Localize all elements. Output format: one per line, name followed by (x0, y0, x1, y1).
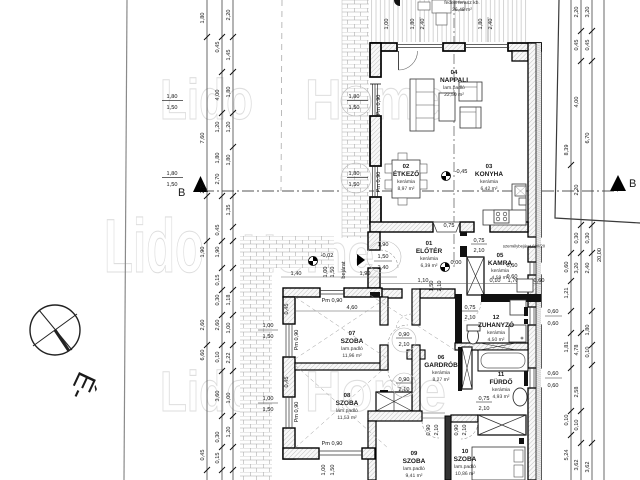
watermark row 1 (160, 68, 446, 132)
svg-text:0,90: 0,90 (426, 425, 432, 436)
east wall (528, 43, 541, 480)
door dim labels interior (392, 223, 492, 435)
svg-text:SZOBA: SZOBA (403, 458, 426, 465)
svg-text:0,45: 0,45 (574, 40, 580, 51)
svg-text:2,20: 2,20 (574, 7, 580, 18)
svg-text:0,15: 0,15 (215, 453, 221, 464)
svg-text:4,60: 4,60 (347, 305, 358, 311)
svg-text:Pm 0,90: Pm 0,90 (322, 298, 343, 304)
svg-text:03: 03 (486, 163, 493, 170)
right dimension chain line 4 (597, 0, 604, 480)
svg-text:2,70: 2,70 (200, 183, 206, 194)
svg-text:0,60: 0,60 (548, 383, 559, 389)
svg-text:0,10: 0,10 (574, 420, 580, 431)
svg-text:lam.padló: lam.padló (454, 464, 476, 470)
window labels west wall (258, 323, 300, 422)
svg-text:3,20: 3,20 (574, 263, 580, 274)
svg-text:1,50: 1,50 (330, 267, 336, 278)
section marker B right (610, 175, 636, 191)
svg-text:1,00: 1,00 (263, 396, 274, 402)
svg-text:Lido: Lido (160, 68, 253, 132)
south wall of corridor block (368, 411, 478, 480)
svg-text:lam.padló: lam.padló (403, 466, 425, 472)
elevation marker elotér (441, 260, 462, 272)
svg-text:5,24: 5,24 (564, 450, 570, 461)
left chain tick marks (204, 34, 236, 473)
room 12 ZUHANYZÓ label (478, 314, 514, 343)
svg-text:1,00: 1,00 (263, 323, 274, 329)
west wall lower section (283, 297, 295, 459)
window label chain side 1 (162, 94, 183, 111)
svg-text:0,45: 0,45 (585, 40, 591, 51)
svg-text:3,60: 3,60 (215, 391, 221, 402)
svg-text:0,45: 0,45 (284, 377, 290, 388)
window label west living 1 (341, 86, 382, 116)
dashed diagonals room 07 (295, 297, 388, 359)
svg-text:0,75: 0,75 (465, 305, 476, 311)
svg-text:0,45: 0,45 (200, 450, 206, 461)
svg-text:1,90: 1,90 (200, 247, 206, 258)
svg-text:1,10: 1,10 (418, 278, 429, 284)
svg-text:1,80: 1,80 (585, 325, 591, 336)
svg-text:Pm 0,90: Pm 0,90 (294, 330, 300, 351)
wall between zuhanyzó and fürdő (455, 343, 528, 350)
svg-text:2,58: 2,58 (574, 387, 580, 398)
coffee table (439, 93, 455, 121)
stove (494, 210, 509, 223)
svg-text:0,30: 0,30 (215, 432, 221, 443)
svg-text:ELŐTÉR: ELŐTÉR (416, 247, 443, 255)
svg-text:0,90: 0,90 (399, 332, 410, 338)
sofa (410, 79, 434, 131)
room 08 SZOBA label (336, 392, 359, 421)
svg-text:2,60: 2,60 (215, 320, 221, 331)
room 02 ÉTKEZŐ label (393, 163, 419, 192)
svg-text:1,80: 1,80 (349, 171, 360, 177)
svg-text:0,30: 0,30 (215, 295, 221, 306)
dashed diagonals room 08 (295, 365, 388, 448)
tree symbol (394, 0, 400, 6)
property boundary line left (124, 0, 127, 480)
svg-text:08: 08 (344, 392, 351, 399)
gardrób and fürdő dividing wall (458, 347, 462, 391)
svg-text:2,10: 2,10 (474, 248, 485, 254)
door arc corridor to zuhanyzó (462, 302, 481, 321)
svg-text:kerámia: kerámia (432, 370, 450, 376)
terrace label (444, 0, 480, 13)
fürdő bathtub (478, 350, 528, 371)
chimney shaft 3 (478, 415, 526, 435)
room 07 SZOBA label (341, 330, 364, 359)
svg-text:1,50: 1,50 (349, 182, 360, 188)
svg-text:1,50: 1,50 (349, 105, 360, 111)
elotér west wall (368, 232, 380, 288)
svg-text:0,00: 0,00 (451, 260, 462, 266)
svg-text:1,21: 1,21 (564, 288, 570, 299)
svg-text:12: 12 (493, 314, 500, 321)
section line B-B (202, 190, 618, 192)
svg-text:6,60: 6,60 (200, 350, 206, 361)
svg-text:1,50: 1,50 (167, 105, 178, 111)
north arrow (30, 305, 102, 405)
svg-text:0,30: 0,30 (585, 233, 591, 244)
svg-text:4,50 m²: 4,50 m² (488, 337, 505, 343)
svg-text:4,00: 4,00 (574, 97, 580, 108)
svg-text:kerámia: kerámia (487, 330, 505, 336)
svg-text:bejárat: bejárat (340, 261, 347, 279)
radiator room 07 (370, 292, 380, 297)
svg-text:lam.padló: lam.padló (341, 346, 363, 352)
svg-text:ÉTKEZŐ: ÉTKEZŐ (393, 170, 419, 178)
svg-text:fedett terasz kb.: fedett terasz kb. (444, 0, 480, 6)
terrace dim labels (384, 17, 494, 42)
svg-text:0,75: 0,75 (474, 238, 485, 244)
svg-text:0,60: 0,60 (548, 309, 559, 315)
left dimension chain line 2 (215, 0, 222, 480)
wall between elotér and kamra (460, 232, 467, 236)
door arc room 10 (461, 422, 478, 439)
svg-text:01: 01 (426, 240, 433, 247)
svg-text:26,48 m²: 26,48 m² (452, 7, 472, 13)
svg-text:02: 02 (403, 163, 410, 170)
svg-text:Pm 0,90: Pm 0,90 (376, 95, 382, 116)
svg-text:2,10: 2,10 (465, 315, 476, 321)
svg-text:0,45: 0,45 (215, 225, 221, 236)
room 09 SZOBA label (403, 450, 426, 479)
svg-text:NAPPALI: NAPPALI (440, 77, 468, 84)
svg-text:2,10: 2,10 (437, 281, 443, 292)
svg-text:B: B (178, 187, 185, 199)
interior dim row (380, 278, 544, 291)
svg-text:06: 06 (438, 354, 445, 361)
svg-text:2,70: 2,70 (215, 174, 221, 185)
chimney shaft 1 (467, 257, 484, 295)
watermark row 3 (160, 360, 446, 424)
zuhanyzó fixtures (467, 300, 528, 344)
paved strip along west side of living section (342, 0, 369, 238)
svg-text:0,15: 0,15 (215, 275, 221, 286)
room 04 NAPPALI label (440, 69, 468, 98)
svg-text:2,40: 2,40 (585, 263, 591, 274)
svg-text:0,60: 0,60 (548, 371, 559, 377)
svg-text:0,60: 0,60 (548, 321, 559, 327)
door arc room 08 (388, 370, 408, 390)
svg-text:2,20: 2,20 (226, 10, 232, 21)
svg-text:1,50: 1,50 (378, 254, 389, 260)
window label chain side 2 (162, 171, 183, 188)
door arc room 09 (422, 421, 439, 438)
svg-text:0,45: 0,45 (284, 304, 290, 315)
svg-text:09: 09 (411, 450, 418, 457)
svg-text:1,50: 1,50 (167, 182, 178, 188)
svg-text:GARDRÓB: GARDRÓB (424, 361, 458, 369)
wall south of elotér and kamra (380, 289, 541, 302)
room 03 KONYHA label (475, 163, 503, 192)
svg-text:1,80: 1,80 (200, 13, 206, 24)
wall between rooms 09 and 10 (445, 416, 451, 480)
elevation marker étkező (442, 169, 468, 181)
west wall of living section (370, 43, 381, 224)
svg-text:lam.padló: lam.padló (443, 85, 465, 91)
svg-text:20,00: 20,00 (597, 248, 603, 262)
svg-text:Lido: Lido (104, 204, 204, 289)
svg-text:2,60: 2,60 (200, 320, 206, 331)
svg-text:2,10: 2,10 (462, 425, 468, 436)
svg-text:0,45: 0,45 (215, 42, 221, 53)
svg-text:2,40: 2,40 (378, 265, 389, 271)
svg-text:1,50: 1,50 (330, 465, 336, 476)
right dimension chain line 2 (574, 0, 581, 480)
svg-text:0,10: 0,10 (564, 415, 570, 426)
room 06 GARDRÓB label (424, 354, 458, 383)
room 08 south wall with window (283, 441, 375, 475)
room 10 SZOBA label (454, 448, 477, 477)
svg-text:10,86 m²: 10,86 m² (455, 471, 475, 477)
svg-text:8,27 m²: 8,27 m² (433, 377, 450, 383)
svg-text:0,10: 0,10 (215, 352, 221, 363)
svg-text:-0,45: -0,45 (455, 169, 468, 175)
svg-text:22,50 m²: 22,50 m² (444, 92, 464, 98)
property boundary line right (555, 0, 640, 223)
svg-text:1,80: 1,80 (167, 94, 178, 100)
svg-text:8,39: 8,39 (564, 145, 570, 156)
terrace door leaf and arc (399, 51, 418, 70)
svg-text:0,60: 0,60 (564, 262, 570, 273)
door arc elotér (380, 250, 398, 268)
svg-text:11,96 m²: 11,96 m² (342, 353, 362, 359)
svg-text:2,10: 2,10 (399, 387, 410, 393)
neighbour building dashed line (281, 0, 282, 191)
room 11 FÜRDŐ label (489, 371, 512, 400)
room 05 KAMRA label (488, 252, 512, 281)
svg-text:1,00: 1,00 (321, 465, 327, 476)
svg-text:2,40: 2,40 (420, 19, 426, 30)
svg-text:személybejárat 600/20: személybejárat 600/20 (503, 244, 546, 249)
svg-text:1,20: 1,20 (215, 122, 221, 133)
svg-text:4,93 m²: 4,93 m² (493, 394, 510, 400)
svg-text:0,60: 0,60 (534, 278, 545, 284)
svg-text:3,20: 3,20 (585, 7, 591, 18)
svg-text:3,62: 3,62 (574, 460, 580, 471)
svg-text:1,45: 1,45 (226, 50, 232, 61)
svg-text:2,10: 2,10 (399, 342, 410, 348)
svg-text:1,90: 1,90 (360, 271, 371, 277)
svg-text:1,00: 1,00 (384, 19, 390, 30)
svg-text:SZOBA: SZOBA (454, 456, 477, 463)
svg-text:1,50: 1,50 (263, 334, 274, 340)
fürdő washbasin (513, 388, 527, 406)
svg-text:04: 04 (451, 69, 458, 76)
chimney shaft 2 (376, 392, 412, 411)
room 01 ELŐTÉR label (416, 240, 443, 269)
terrace furniture table (418, 0, 465, 25)
left dimension chain line 3 (226, 0, 233, 480)
svg-text:4,00: 4,00 (215, 90, 221, 101)
section marker B left (178, 176, 208, 199)
east wall of rooms 07-08 (380, 297, 388, 396)
svg-text:1,80: 1,80 (410, 19, 416, 30)
svg-text:kerámia: kerámia (492, 387, 510, 393)
svg-text:1,35: 1,35 (226, 205, 232, 216)
left dimension chain line 1 (200, 0, 207, 480)
svg-text:1,80: 1,80 (478, 19, 484, 30)
svg-text:0,90: 0,90 (454, 425, 460, 436)
svg-text:lam.padló: lam.padló (336, 408, 358, 414)
gardrob west wall piers (412, 289, 420, 411)
svg-text:0,90: 0,90 (399, 377, 410, 383)
svg-text:1,20: 1,20 (226, 122, 232, 133)
svg-text:2,20: 2,20 (574, 185, 580, 196)
north wall of room 07 (283, 288, 382, 304)
door arc corridor to gardrob (396, 314, 412, 330)
svg-text:SZOBA: SZOBA (341, 338, 364, 345)
svg-text:1,50: 1,50 (429, 281, 435, 292)
svg-text:1,00: 1,00 (323, 267, 329, 278)
svg-text:kerámia: kerámia (480, 179, 498, 185)
svg-text:1,50: 1,50 (263, 407, 274, 413)
armchair 2 (460, 107, 481, 128)
bed room 10 (472, 447, 525, 480)
right chain ticks (568, 28, 595, 446)
svg-text:1,80: 1,80 (226, 87, 232, 98)
svg-text:0,30: 0,30 (574, 233, 580, 244)
svg-text:KONYHA: KONYHA (475, 171, 503, 178)
svg-text:Pm 0,90: Pm 0,90 (294, 402, 300, 423)
axis line vertical (453, 0, 455, 268)
paved walkway vertical strip (240, 236, 272, 480)
svg-text:2,22: 2,22 (226, 353, 232, 364)
svg-text:6,42 m²: 6,42 m² (481, 186, 498, 192)
right side window labels 0,60 (507, 263, 562, 389)
svg-text:1,80: 1,80 (215, 153, 221, 164)
svg-text:6,39 m²: 6,39 m² (421, 263, 438, 269)
svg-text:1,80: 1,80 (167, 171, 178, 177)
dining table (385, 153, 427, 205)
south wall of living section (370, 222, 528, 232)
svg-text:0,10: 0,10 (585, 347, 591, 358)
elevation marker bejárat (309, 253, 334, 266)
entrance dims (281, 241, 401, 387)
svg-text:3,62: 3,62 (585, 462, 591, 473)
svg-text:1,80: 1,80 (349, 94, 360, 100)
svg-text:kerámia: kerámia (397, 179, 415, 185)
svg-text:1,18: 1,18 (226, 295, 232, 306)
armchair 1 (459, 82, 482, 101)
svg-text:1,90: 1,90 (215, 247, 221, 258)
svg-text:0,75: 0,75 (479, 396, 490, 402)
svg-text:8,97 m²: 8,97 m² (398, 186, 415, 192)
svg-text:1,81: 1,81 (564, 342, 570, 353)
entrance door arrow (340, 254, 365, 279)
svg-text:2,10: 2,10 (434, 425, 440, 436)
svg-text:0,60: 0,60 (507, 274, 518, 280)
svg-text:ZUHANYZÓ: ZUHANYZÓ (478, 321, 514, 329)
right dimension chain line 1 (564, 0, 571, 480)
svg-text:B: B (629, 178, 636, 190)
terrace deck (371, 0, 528, 42)
radiator room 10 (519, 438, 524, 444)
svg-text:Pm 0,90: Pm 0,90 (376, 172, 382, 193)
dashed diagonal gardrob (370, 295, 455, 350)
svg-text:Lido: Lido (160, 360, 253, 424)
svg-text:7,60: 7,60 (200, 133, 206, 144)
kitchen counter (483, 184, 526, 225)
svg-text:1,00: 1,00 (226, 323, 232, 334)
svg-text:10: 10 (462, 448, 469, 455)
svg-text:Pm 0,90: Pm 0,90 (322, 441, 343, 447)
svg-text:1,00: 1,00 (226, 393, 232, 404)
right dimension chain line 3 (585, 0, 592, 480)
svg-text:2,40: 2,40 (488, 19, 494, 30)
svg-text:11: 11 (498, 371, 505, 378)
svg-text:SZOBA: SZOBA (336, 400, 359, 407)
svg-text:0,75: 0,75 (444, 223, 455, 229)
svg-text:2,10: 2,10 (479, 406, 490, 412)
svg-text:6,70: 6,70 (585, 133, 591, 144)
svg-text:1,80: 1,80 (226, 155, 232, 166)
kamra washbasin (517, 279, 533, 292)
svg-text:-0,02: -0,02 (321, 253, 334, 259)
svg-text:9,41 m²: 9,41 m² (406, 473, 423, 479)
paved walkway horizontal band (240, 236, 334, 268)
zuhanyzó west wall (455, 302, 462, 343)
svg-text:FÜRDŐ: FÜRDŐ (489, 378, 512, 386)
gardrob wall middle chunk (407, 350, 425, 359)
svg-text:0,60: 0,60 (507, 263, 518, 269)
svg-text:kerámia: kerámia (420, 256, 438, 262)
svg-text:1,40: 1,40 (291, 271, 302, 277)
svg-text:1,20: 1,20 (226, 427, 232, 438)
wall between room 07 and 08 (295, 363, 388, 370)
svg-text:05: 05 (497, 252, 504, 259)
fürdő radiator (524, 371, 528, 386)
window label west living 2 (341, 163, 382, 193)
svg-text:4,78: 4,78 (574, 345, 580, 356)
watermark row 2 (104, 204, 374, 289)
door arc room 07 (388, 325, 408, 345)
north facade wall (371, 43, 541, 61)
svg-text:1,90: 1,90 (378, 242, 389, 248)
